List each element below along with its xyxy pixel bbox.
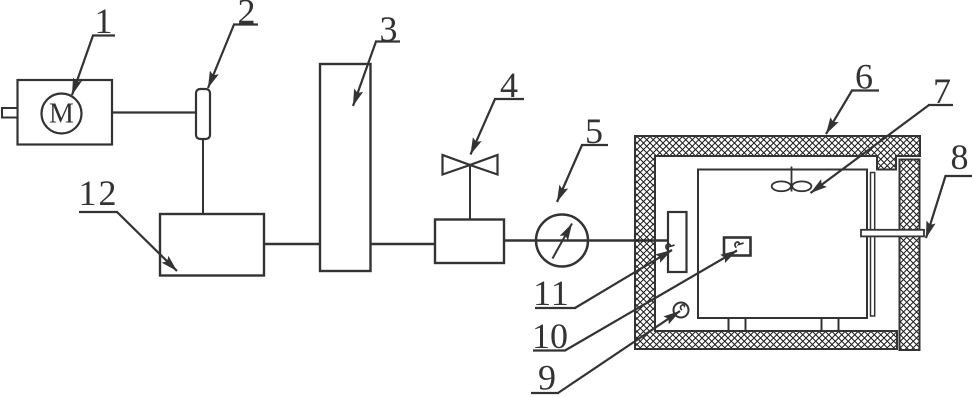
svg-text:M: M (49, 99, 74, 130)
svg-text:2: 2 (238, 0, 256, 32)
foot right (821, 318, 823, 331)
fan 7 blades (772, 181, 791, 191)
heater rect 11 (668, 212, 687, 272)
coupling 2 (196, 89, 210, 139)
inner chamber box (698, 170, 867, 319)
motor M1 box (18, 80, 113, 145)
svg-text:12: 12 (79, 173, 119, 213)
valve stem (469, 166, 471, 220)
box under valve 4 (435, 220, 504, 264)
partition double line (871, 173, 875, 317)
wire box4 to chamber (through gauge) (504, 239, 668, 242)
gauge needle (553, 224, 573, 259)
motor shaft stub (2, 108, 18, 118)
motor circle M (42, 94, 82, 134)
wire coupling down to box 12 (202, 139, 204, 214)
sensor curl in box 10 (735, 242, 744, 247)
svg-text:3: 3 (380, 9, 398, 49)
gauge 5 circle (536, 215, 588, 267)
fan 7 shaft (791, 167, 793, 192)
svg-text:9: 9 (538, 358, 556, 397)
column 3 (320, 64, 371, 271)
valve 4 bowtie (443, 155, 498, 175)
chamber right wall column hatched (900, 160, 920, 351)
sensor curl in circle 9 (681, 305, 685, 310)
wire column3 to box4 (371, 243, 435, 245)
wire box12 to column 3 (264, 243, 320, 245)
foot left (728, 318, 730, 331)
wire shaft motor to coupling (112, 111, 196, 113)
sensor circle 9 (674, 303, 689, 318)
sensor curl at rect 11 (666, 244, 675, 249)
box 12 (160, 214, 264, 276)
chamber wall U-shape hatched 6 (635, 136, 920, 349)
svg-text:8: 8 (951, 137, 969, 177)
pipe 8 (861, 230, 924, 237)
sensor box 10 (724, 238, 751, 256)
